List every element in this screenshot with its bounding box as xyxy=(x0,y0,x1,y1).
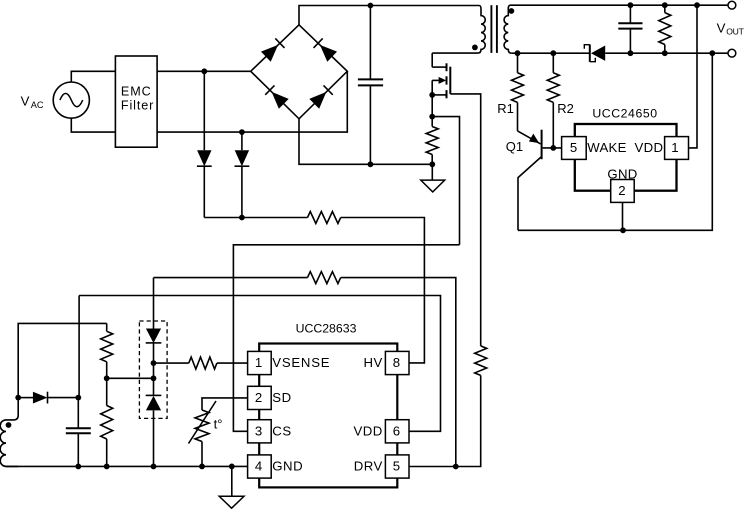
node bulk cap top xyxy=(368,3,374,9)
label R1 xyxy=(497,101,514,116)
node clamp bottom xyxy=(151,464,157,470)
transistor Q1 bar xyxy=(541,130,543,160)
wire primary to MOSFET drain xyxy=(431,53,433,67)
pin 5 DRV xyxy=(354,455,409,478)
wire GND pin down xyxy=(622,202,624,230)
wire HV line left segment xyxy=(204,217,307,219)
wire EMC lower AC to bridge right vertex xyxy=(157,71,347,132)
svg-text:Q1: Q1 xyxy=(506,139,523,154)
node upper-AC junction xyxy=(201,68,207,74)
diode D1 (to HV sense) xyxy=(197,150,212,166)
label t deg xyxy=(214,416,223,431)
svg-text:Filter: Filter xyxy=(121,99,154,113)
node GND return junction xyxy=(620,227,626,233)
node ground stem xyxy=(229,464,235,470)
node divider bottom xyxy=(104,464,110,470)
pin 8 HV xyxy=(363,351,409,374)
node preload resistor top xyxy=(662,2,668,8)
MOSFET Q2 drain lead xyxy=(432,66,446,68)
svg-text:2: 2 xyxy=(618,183,625,198)
pin 3 CS xyxy=(248,420,292,443)
node output cap top xyxy=(628,2,634,8)
wire SD pin to thermistor xyxy=(202,398,248,410)
VDD capacitor xyxy=(66,398,91,467)
label VOUT xyxy=(717,21,744,37)
node bulk cap bottom xyxy=(368,161,374,167)
MOSFET Q2 channel stubs xyxy=(446,63,448,98)
output terminal VOUT+ xyxy=(728,1,736,9)
MOSFET Q2 gate bar xyxy=(449,67,451,94)
wire aux winding to diode xyxy=(18,397,33,399)
svg-text:3: 3 xyxy=(255,424,262,439)
wire VDD line xyxy=(79,296,440,432)
AC source VAC circle with sine xyxy=(53,82,89,118)
wire clamp to ground rail xyxy=(153,410,155,466)
svg-text:WAKE: WAKE xyxy=(587,140,627,155)
svg-text:1: 1 xyxy=(255,355,262,370)
svg-text:GND: GND xyxy=(272,459,303,474)
HV series resistor xyxy=(308,212,341,224)
transformer primary phase dot xyxy=(472,45,478,51)
bridge diode (upper-left edge) xyxy=(261,38,284,61)
pin 6 VDD xyxy=(353,420,409,443)
node aux winding top xyxy=(15,395,21,401)
node R2 base junction xyxy=(550,145,556,151)
wire down from lower AC xyxy=(241,132,243,150)
node ground rail end xyxy=(429,161,435,167)
wire secondary bottom rail left xyxy=(512,52,590,54)
svg-text:V: V xyxy=(717,21,726,36)
label VAC xyxy=(21,94,44,110)
wire VAC to EMC filter (bottom) xyxy=(71,118,115,132)
clamp lower diode xyxy=(146,395,162,410)
aux winding coil xyxy=(0,398,18,467)
wire sense resistor to ground rail xyxy=(431,155,433,165)
op-amp U1 UCC28633 box xyxy=(259,344,397,488)
thermistor RT xyxy=(195,410,209,442)
wire gate resistor to DRV pin xyxy=(409,375,481,466)
svg-text:5: 5 xyxy=(393,459,400,474)
node DRV junction xyxy=(453,464,459,470)
svg-text:t°: t° xyxy=(214,416,223,431)
wire aux diode to VDD cap xyxy=(48,397,79,399)
current sense resistor xyxy=(426,127,438,155)
bridge diode (lower-right edge) xyxy=(309,85,332,108)
node clamp divider junction xyxy=(151,375,157,381)
pin 4 GND xyxy=(248,455,304,478)
wire D1 to HV line xyxy=(203,166,205,217)
node D2 HV-line junction xyxy=(239,215,245,221)
wire VDD pin to output rail xyxy=(689,5,698,148)
optional clamp dashed box xyxy=(139,321,167,418)
node VDD cap bottom xyxy=(75,464,81,470)
node lower-AC junction xyxy=(239,129,245,135)
svg-text:VSENSE: VSENSE xyxy=(272,355,330,370)
output terminal VOUT- xyxy=(728,49,736,57)
wire divider mid to clamp node xyxy=(107,377,154,379)
wire EMC to bridge left vertex xyxy=(157,70,251,72)
wire thermistor to ground rail xyxy=(201,442,203,467)
svg-text:SD: SD xyxy=(272,390,291,405)
svg-text:8: 8 xyxy=(393,355,400,370)
svg-text:OUT: OUT xyxy=(726,26,744,36)
wire Q1 base to WAKE pin xyxy=(543,147,562,149)
svg-text:VDD: VDD xyxy=(635,140,664,155)
wire DRV aux line right segment xyxy=(341,278,456,467)
transformer primary winding xyxy=(432,6,485,54)
node source junction xyxy=(429,92,435,98)
wire VDD line down to aux rectifier xyxy=(78,296,80,398)
pin 5 WAKE xyxy=(562,137,627,160)
wire HV line to pin 8 xyxy=(341,218,425,363)
svg-text:V: V xyxy=(21,94,30,109)
primary ground symbol xyxy=(421,164,445,192)
MOSFET Q2 body arrow xyxy=(432,77,446,84)
diode D2 (to HV sense) xyxy=(235,150,250,166)
node VDD cap top xyxy=(75,395,81,401)
svg-text:GND: GND xyxy=(607,167,637,182)
aux rectifier diode xyxy=(33,392,48,404)
svg-text:UCC28633: UCC28633 xyxy=(296,321,357,335)
node R1 top xyxy=(515,50,521,56)
label Q1 xyxy=(506,139,523,154)
aux series resistor xyxy=(308,272,341,284)
resistor R1 xyxy=(512,53,524,131)
clamp upper diode xyxy=(146,328,162,343)
wire DRV aux line left segment xyxy=(154,277,308,279)
divider upper resistor xyxy=(101,323,113,378)
pin 1 VSENSE xyxy=(248,351,331,374)
op-amp U2 UCC24650 box xyxy=(575,124,677,191)
wire ground rail xyxy=(6,465,248,467)
node R2 top xyxy=(550,50,556,56)
resistor R2 xyxy=(547,53,559,148)
svg-text:VDD: VDD xyxy=(353,423,382,438)
node output return junction xyxy=(709,50,715,56)
transformer secondary winding xyxy=(504,5,512,53)
transistor Q1 collector xyxy=(518,157,542,231)
wire secondary bottom rail right xyxy=(605,52,728,54)
svg-text:EMC: EMC xyxy=(121,85,152,99)
wire source to CS line xyxy=(432,117,459,245)
node clamp VSENSE junction xyxy=(151,360,157,366)
wire CS line xyxy=(233,245,459,431)
wire clamp mid xyxy=(153,343,155,396)
node VDD24650 top xyxy=(694,2,700,8)
wire VAC to EMC filter (top) xyxy=(71,71,115,82)
label UCC28633 xyxy=(296,321,357,335)
svg-text:4: 4 xyxy=(255,459,262,474)
svg-text:R1: R1 xyxy=(497,101,514,116)
wire output return xyxy=(518,53,712,230)
secondary-side ground symbol xyxy=(219,466,244,508)
wire secondary top rail xyxy=(511,4,729,6)
wire down from upper AC xyxy=(203,71,205,150)
svg-text:UCC24650: UCC24650 xyxy=(592,106,657,120)
EMC filter box xyxy=(115,56,157,147)
wire bridge top to rail xyxy=(299,6,479,25)
preload resistor xyxy=(659,5,671,53)
svg-text:1: 1 xyxy=(671,140,678,155)
svg-text:6: 6 xyxy=(393,424,400,439)
gate resistor xyxy=(475,346,487,376)
transformer secondary phase dot xyxy=(509,8,515,14)
wire gate to DRV (upper) xyxy=(450,94,480,346)
VSENSE series resistor xyxy=(154,357,248,369)
output rectifier schottky diode xyxy=(584,45,605,62)
bulk capacitor C1 xyxy=(358,6,383,165)
label EMC Filter xyxy=(121,85,154,113)
node CS takeoff xyxy=(429,114,435,120)
node thermistor bottom xyxy=(199,464,205,470)
wire DRV aux line into clamp box xyxy=(153,278,155,329)
bridge diode (lower-left edge) xyxy=(265,85,288,108)
wire MOSFET source node xyxy=(431,80,433,126)
svg-text:HV: HV xyxy=(363,355,382,370)
pin 2 GND xyxy=(607,167,637,203)
svg-text:CS: CS xyxy=(272,423,291,438)
svg-text:R2: R2 xyxy=(557,101,574,116)
transistor Q1 emitter xyxy=(518,131,541,144)
transformer core xyxy=(491,5,497,53)
divider lower resistor xyxy=(101,378,113,466)
pin 1 VDD xyxy=(635,137,689,160)
node output cap bottom xyxy=(628,50,634,56)
svg-text:DRV: DRV xyxy=(354,459,383,474)
aux winding phase dot xyxy=(6,422,12,428)
label UCC24650 xyxy=(592,106,657,120)
thermistor diagonal stroke xyxy=(189,401,217,444)
node divider mid xyxy=(104,375,110,381)
wire bridge bottom to DC- rail xyxy=(299,119,432,165)
wire D2 to HV line xyxy=(241,166,243,217)
MOSFET Q2 source lead xyxy=(432,94,447,96)
wire divider feed xyxy=(18,323,107,397)
wire bridge diamond xyxy=(251,25,348,119)
output capacitor xyxy=(618,5,642,53)
svg-text:5: 5 xyxy=(570,140,577,155)
pin 2 SD xyxy=(248,386,292,409)
svg-text:2: 2 xyxy=(255,390,262,405)
label R2 xyxy=(557,101,574,116)
bridge diode (upper-right edge) xyxy=(314,38,337,61)
svg-text:AC: AC xyxy=(31,100,44,110)
node preload resistor bottom xyxy=(662,50,668,56)
